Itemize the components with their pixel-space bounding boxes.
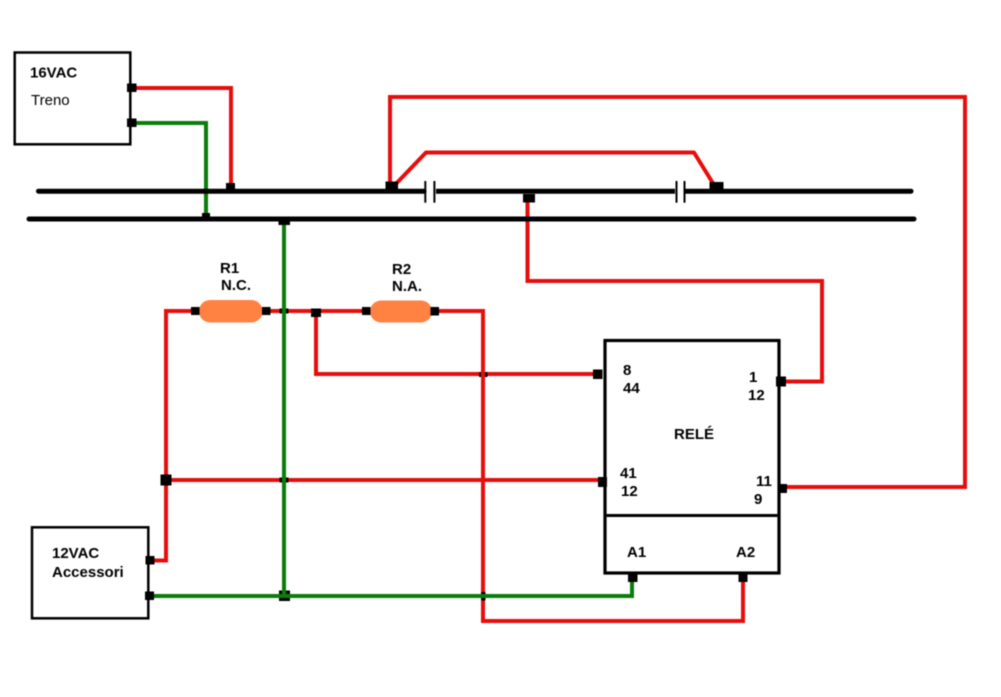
terminal relay pin 1/12 — [776, 377, 786, 387]
svg-text:41: 41 — [620, 465, 637, 482]
terminal 16VAC green — [127, 119, 137, 128]
wire red bridge over insulated gaps — [391, 153, 717, 190]
wire green 12VAC bus to relay pin A1 — [151, 577, 632, 596]
svg-text:N.C.: N.C. — [221, 277, 251, 294]
svg-text:12: 12 — [621, 483, 638, 500]
junction square red vertical at (166,480) — [161, 475, 172, 486]
svg-text:1: 1 — [749, 369, 757, 386]
wire red rail1 tap to relay pin 1/12 — [528, 197, 823, 382]
terminal relay pin A2 — [739, 574, 748, 582]
terminal R2 right — [431, 307, 440, 316]
terminal R2 left — [362, 307, 371, 315]
junction dark patch at red crossing (483,374) — [479, 372, 488, 377]
insulated gap 2 tick marks — [676, 181, 678, 203]
wire red 16VAC to rail1 — [136, 88, 231, 191]
relay coil divider — [605, 514, 779, 517]
svg-text:16VAC: 16VAC — [30, 65, 77, 82]
terminal R1 left — [191, 307, 200, 315]
terminal 16VAC red — [127, 84, 137, 93]
rail 2 (bottom track rail) — [29, 217, 914, 222]
insulated gap 1 tick marks — [424, 181, 426, 203]
wire red junction drop to relay pin 8/44 — [316, 311, 600, 374]
terminal R1 right — [262, 307, 271, 315]
wire red junction to relay pin 41/12 — [166, 478, 602, 482]
junction square rail1 / top loop + bridge — [386, 182, 399, 193]
svg-text:N.A.: N.A. — [392, 278, 422, 295]
box 16VAC Treno (power source) — [15, 53, 131, 145]
junction dark patch at crossing (284,480) — [280, 478, 289, 483]
svg-text:A2: A2 — [736, 544, 755, 561]
junction dark patch at crossing (284,311) — [280, 309, 289, 314]
svg-text:12VAC: 12VAC — [52, 545, 99, 562]
terminal relay pin 41/12 — [598, 477, 607, 487]
terminal relay pin 8/44 — [593, 370, 603, 380]
wire red top loop rail1 to relay pin 11/9 — [390, 97, 965, 487]
svg-text:R1: R1 — [220, 260, 239, 277]
terminal 12VAC green — [145, 592, 154, 601]
junction square rail2 / green drop — [279, 220, 291, 225]
svg-text:A1: A1 — [627, 544, 646, 561]
wire green 16VAC to rail2 — [136, 123, 206, 219]
wire green rail2 to green bus — [282, 221, 286, 596]
junction square rail2 / green 16VAC wire — [202, 213, 210, 219]
rail 1 (top track rail, with two insulated gaps) — [39, 189, 425, 194]
junction square green tee (284,596) — [279, 591, 290, 602]
relay box U1 — [605, 341, 779, 574]
svg-text:Treno: Treno — [31, 92, 70, 109]
reed switch R1 body — [199, 300, 263, 323]
terminal relay pin A1 — [628, 574, 638, 582]
junction square rail1 / pin 1-12 tap — [523, 194, 535, 203]
wire red R2 right to relay pin A2 — [439, 311, 743, 621]
svg-text:R2: R2 — [392, 261, 411, 278]
wire red 12VAC to R1 left — [151, 311, 199, 561]
svg-text:8: 8 — [623, 362, 631, 379]
box 12VAC Accessori (power source) — [32, 527, 148, 618]
svg-text:RELÉ: RELÉ — [674, 426, 714, 443]
junction square rail1 / bridge right — [710, 182, 724, 192]
svg-text:44: 44 — [623, 380, 640, 397]
terminal 12VAC red — [146, 556, 155, 565]
svg-text:9: 9 — [754, 491, 762, 508]
svg-text:11: 11 — [756, 473, 772, 490]
wire red R1 to R2 — [266, 309, 366, 313]
svg-text:12: 12 — [748, 387, 765, 404]
reed switch R2 body — [370, 301, 432, 323]
svg-text:Accessori: Accessori — [52, 564, 124, 581]
junction dark patch at crossing (483,596) — [481, 592, 486, 601]
junction square red at (316,311) — [311, 309, 321, 318]
junction square rail1 / red 16VAC wire — [226, 183, 235, 192]
terminal relay pin 11/9 — [778, 484, 787, 493]
